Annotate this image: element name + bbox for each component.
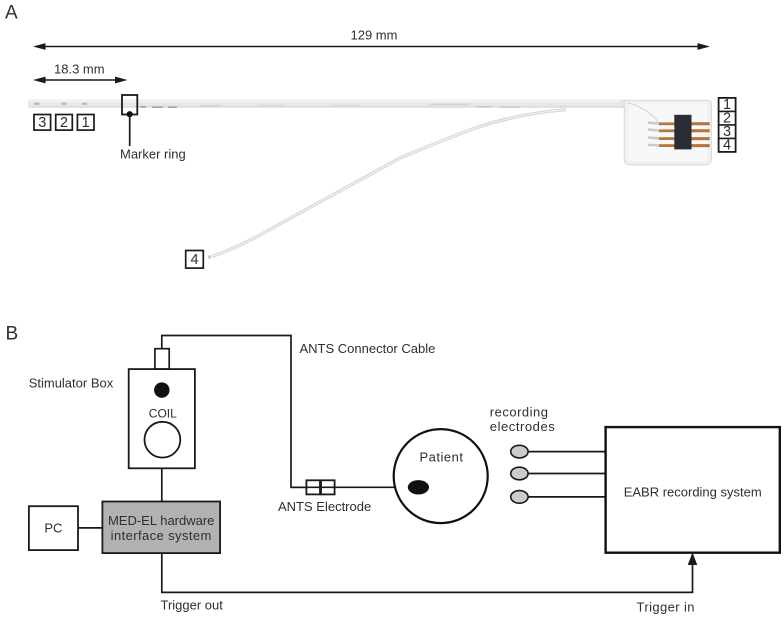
- connector pins copper: [659, 122, 710, 147]
- svg-text:4: 4: [723, 138, 731, 154]
- trigger wire MED-EL to EABR: [162, 553, 693, 592]
- svg-text:Patient: Patient: [420, 450, 464, 465]
- contact number box 1: [77, 115, 94, 132]
- svg-text:Trigger out: Trigger out: [161, 598, 224, 613]
- svg-text:2: 2: [60, 115, 68, 131]
- svg-text:EABR recording system: EABR recording system: [624, 485, 762, 500]
- antenna stub: [155, 349, 169, 369]
- dimension arrow 129 mm: [33, 43, 710, 50]
- stimulator box: [129, 369, 195, 468]
- svg-text:ANTS Connector Cable: ANTS Connector Cable: [300, 341, 436, 356]
- recording electrode wire 2: [527, 473, 606, 475]
- svg-text:MED-EL hardware: MED-EL hardware: [108, 513, 214, 528]
- dimension arrow 18.3 mm: [33, 77, 128, 84]
- indicator dot: [154, 382, 169, 397]
- electrode silicone band: [28, 100, 628, 108]
- stimulating electrode dot: [408, 480, 429, 494]
- svg-text:interface system: interface system: [111, 528, 212, 543]
- svg-text:4: 4: [190, 252, 198, 268]
- connector header: [674, 115, 691, 150]
- wire PC to MED-EL: [78, 527, 102, 529]
- recording electrode pad 2: [511, 467, 528, 480]
- svg-text:ANTS Electrode: ANTS Electrode: [278, 499, 371, 514]
- ANTS electrode symbol: [306, 480, 334, 494]
- electrode contacts on band: [34, 103, 87, 105]
- EABR recording system box: [606, 427, 780, 553]
- wire stimulator box to MED-EL box: [161, 468, 163, 501]
- coil circle: [145, 422, 181, 458]
- svg-text:1: 1: [82, 115, 90, 131]
- wire stimulator to connector cable: [162, 336, 307, 488]
- connector pins left (grey): [648, 123, 660, 146]
- marker ring: [122, 95, 137, 146]
- recording electrode pad 3: [511, 491, 528, 504]
- lead number box 4: [186, 251, 204, 269]
- MED-EL hardware interface system box: [102, 502, 220, 554]
- svg-text:electrodes: electrodes: [490, 419, 555, 434]
- trigger in arrowhead: [688, 553, 698, 566]
- contact number box 2: [56, 115, 73, 132]
- PC box: [29, 506, 78, 550]
- svg-text:PC: PC: [44, 521, 62, 536]
- svg-text:recording: recording: [490, 405, 549, 420]
- svg-text:B: B: [6, 324, 19, 345]
- svg-text:Marker ring: Marker ring: [120, 147, 186, 162]
- contact number box 3: [34, 115, 51, 132]
- svg-text:18.3 mm: 18.3 mm: [54, 62, 105, 77]
- svg-text:Trigger in: Trigger in: [637, 600, 695, 615]
- lead tip dot: [208, 255, 212, 259]
- electrode branch to lead 4: [212, 110, 566, 257]
- svg-text:COIL: COIL: [149, 407, 177, 421]
- svg-text:A: A: [5, 3, 18, 24]
- svg-text:Stimulator Box: Stimulator Box: [29, 376, 114, 391]
- connector body: [624, 100, 711, 164]
- recording electrode wire 3: [527, 496, 606, 498]
- pin number boxes 1-4: [719, 97, 736, 154]
- svg-text:129 mm: 129 mm: [351, 28, 398, 43]
- svg-text:3: 3: [38, 115, 46, 131]
- recording electrode wire 1: [527, 451, 606, 453]
- wire electrode to patient: [291, 486, 410, 488]
- patient circle: [394, 429, 488, 523]
- recording electrode pad 1: [511, 445, 528, 458]
- band dashed markings: [140, 104, 520, 108]
